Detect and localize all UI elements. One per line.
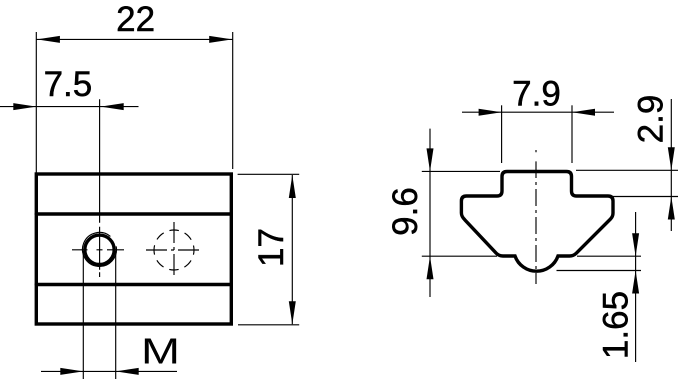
dim 17 top arrow [289, 175, 296, 198]
dim 1.65 top arrow [632, 233, 639, 256]
dim 2.9 dimension line [670, 99, 672, 231]
dim 7.9 dimension line [462, 111, 614, 113]
dim 22 right arrow [209, 36, 232, 43]
profile vertical centerline [535, 150, 537, 284]
dim 1.65 bottom arrow [632, 271, 639, 294]
svg-text:7.9: 7.9 [512, 75, 561, 114]
dim 2.9 top extension line [576, 169, 678, 171]
dim M left extension line [82, 251, 84, 379]
hidden hole horizontal centerline [146, 249, 202, 251]
dim 22 right extension line [232, 32, 234, 169]
hole vertical centerline / 7.5 extension line [99, 99, 101, 277]
dim 9.6 dimension line [429, 129, 431, 297]
hole horizontal centerline [72, 249, 124, 251]
tapped hole bold circle [85, 235, 114, 264]
dim 9.6 bottom extension line [422, 255, 497, 257]
dim 17 dimension line [291, 175, 293, 324]
dim 7.5 left arrow [13, 103, 36, 110]
svg-text:M: M [141, 331, 180, 372]
svg-text:17: 17 [252, 228, 291, 267]
svg-text:1.65: 1.65 [597, 291, 636, 359]
dim 1.65 dimension line [635, 212, 637, 362]
dim 17 bottom arrow [289, 301, 296, 324]
dim 9.6 top arrow [427, 148, 434, 171]
svg-text:7.5: 7.5 [44, 65, 93, 104]
svg-text:2.9: 2.9 [632, 95, 671, 144]
lower groove edge line [36, 283, 231, 286]
dim 9.6 top extension line [422, 170, 500, 172]
nut profile side view outline [461, 172, 613, 272]
dim 7.9 right arrow [572, 109, 595, 116]
svg-text:22: 22 [116, 0, 155, 39]
dim 7.5 dimension line [0, 106, 139, 108]
thread major diameter thin arc [82, 232, 116, 266]
nut body front view outline [36, 174, 231, 324]
dim 22 left extension line [35, 32, 37, 174]
dim M dimension line [41, 370, 177, 372]
upper groove edge line [36, 212, 231, 215]
svg-text:9.6: 9.6 [386, 187, 425, 236]
dim M right arrow [116, 368, 139, 375]
dim 7.9 right extension line [571, 105, 573, 163]
hidden hole vertical centerline [173, 222, 175, 278]
dim 2.9 bottom arrow [668, 197, 675, 220]
dim 2.9 bottom extension line [608, 196, 678, 198]
dim 7.5 right arrow [101, 103, 124, 110]
dim 7.9 left arrow [479, 109, 502, 116]
dim 17 bottom extension line [238, 324, 299, 326]
dim 1.65 bottom extension line [557, 270, 642, 272]
dim 22 left arrow [37, 36, 60, 43]
dim 2.9 top arrow [668, 147, 675, 170]
dim 7.9 left extension line [501, 105, 503, 163]
dim 17 top extension line [238, 173, 300, 175]
dim 9.6 bottom arrow [427, 256, 434, 279]
hidden hole dashed circle [154, 230, 194, 270]
dim 22 dimension line [36, 38, 232, 40]
dim 1.65 top extension line [577, 255, 641, 257]
dim M right extension line [115, 251, 117, 379]
dim M left arrow [60, 368, 83, 375]
